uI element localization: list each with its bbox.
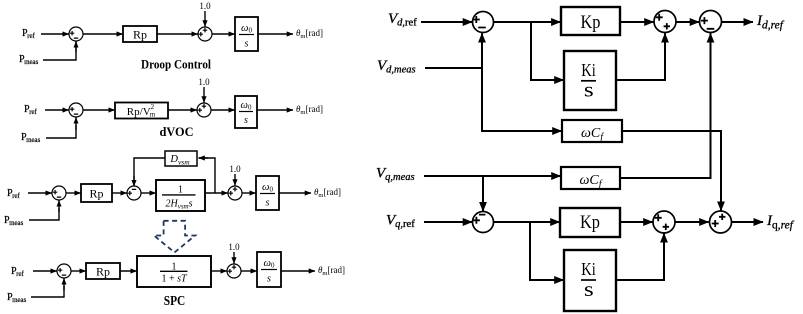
summing junction S1 q-axis xyxy=(473,212,494,233)
block Kp d xyxy=(561,7,620,35)
summing junction S3 d-axis xyxy=(700,11,722,33)
svg-text:Ki: Ki xyxy=(581,60,596,80)
svg-text:SPC: SPC xyxy=(164,294,186,309)
svg-text:1.0: 1.0 xyxy=(229,164,241,174)
svg-text:Pmeas: Pmeas xyxy=(21,132,41,144)
wire w0/s to theta (vsm) xyxy=(279,192,311,194)
block Dvsm (vsm) xyxy=(165,151,197,166)
summing junction S1 d-axis xyxy=(473,12,494,33)
summing junction S1 dvoc xyxy=(69,103,83,117)
svg-text:1 + sT: 1 + sT xyxy=(161,274,188,285)
summing junction S2 d-axis xyxy=(654,11,676,33)
wire V_d,meas trunk xyxy=(425,33,482,68)
svg-text:s: s xyxy=(266,198,270,209)
node 1.0 (vsm) xyxy=(229,164,241,174)
wire V_d,meas down to wCf d xyxy=(482,68,562,131)
summing junction S1 vsm xyxy=(52,186,66,200)
wire Rp to sum2 (droop) xyxy=(157,33,198,35)
node V_d,ref xyxy=(388,11,417,29)
label SPC xyxy=(164,294,186,309)
svg-text:1.0: 1.0 xyxy=(199,1,211,11)
block w0/s (spc) xyxy=(257,252,281,287)
node I_q,ref xyxy=(766,213,795,232)
wire 1.0 to sum3 (vsm) xyxy=(234,174,236,186)
label dVOC xyxy=(160,124,194,139)
wire P_ref to sum (spc) xyxy=(33,270,57,272)
wire P_ref to sum (dvoc) xyxy=(45,109,69,111)
node P_meas (vsm) xyxy=(4,215,24,227)
summing junction S2 droop xyxy=(198,27,212,41)
summing junction S3 q-axis xyxy=(710,211,732,233)
svg-text:Pmeas: Pmeas xyxy=(4,215,24,227)
svg-text:θm[rad]: θm[rad] xyxy=(314,187,341,199)
node P_ref (vsm) xyxy=(7,188,21,200)
svg-text:s: s xyxy=(245,39,249,50)
block 1/2Hvsm s (vsm) xyxy=(156,180,205,211)
wire sum2 to w0/s (droop) xyxy=(212,33,234,35)
wire V_q,ref to q sum1 xyxy=(424,221,472,223)
block Rp (droop) xyxy=(123,26,157,42)
block Rp (spc) xyxy=(86,263,120,279)
wire q sum2 to q sum3 xyxy=(675,221,709,223)
block wCf q xyxy=(561,167,620,190)
wire P_meas to sum (dvoc) xyxy=(46,117,76,138)
svg-text:θm[rad]: θm[rad] xyxy=(296,104,323,116)
wire 1.0 to sum2 (dvoc) xyxy=(203,87,205,103)
svg-text:Vq,ref: Vq,ref xyxy=(386,213,415,231)
block w0/s (vsm) xyxy=(256,176,279,210)
summing junction S3 vsm xyxy=(228,186,242,200)
svg-text:Rp: Rp xyxy=(96,265,110,279)
svg-text:Id,ref: Id,ref xyxy=(756,13,785,32)
node P_ref (dvoc) xyxy=(24,104,38,116)
svg-text:s: s xyxy=(267,274,271,285)
wire sum to Rp (droop) xyxy=(83,33,122,35)
wire w0/s to theta (dvoc) xyxy=(257,109,293,111)
svg-text:Pmeas: Pmeas xyxy=(7,292,27,304)
block w0/s (dvoc) xyxy=(235,96,257,128)
node V_d,meas xyxy=(377,58,416,76)
svg-text:Vq,meas: Vq,meas xyxy=(376,166,415,184)
node theta_m[rad] (vsm) xyxy=(314,187,341,199)
svg-text:Pref: Pref xyxy=(11,266,25,278)
node 1.0 (spc) xyxy=(228,242,240,252)
svg-text:1: 1 xyxy=(178,184,183,195)
summing junction S2 q-axis xyxy=(653,211,675,233)
wire sum to Rp (vsm) xyxy=(66,192,80,194)
wire P_meas to sum (spc) xyxy=(31,278,64,297)
wire 1/(1+sT) to sum2 (spc) xyxy=(211,270,227,272)
summing junction S1 droop xyxy=(69,27,83,41)
block Ki/s q xyxy=(564,250,616,311)
wire branch to Ki/s d xyxy=(531,22,564,80)
svg-text:Vd,ref: Vd,ref xyxy=(388,11,417,29)
wire w0/s to theta (droop) xyxy=(258,33,293,35)
svg-text:Pmeas: Pmeas xyxy=(19,54,39,66)
svg-text:s: s xyxy=(244,115,248,126)
wire sum2d to sum3d xyxy=(676,21,699,23)
svg-text:Pref: Pref xyxy=(7,188,21,200)
summing junction S1 spc xyxy=(57,264,71,278)
wire sum3 to w0/s (vsm) xyxy=(242,192,255,194)
wire Kp d to sum2d xyxy=(620,21,654,23)
wire branch down to q sum1 xyxy=(482,176,484,211)
node P_meas (spc) xyxy=(7,292,27,304)
svg-text:Pref: Pref xyxy=(24,104,38,116)
svg-text:Ki: Ki xyxy=(581,259,596,279)
svg-text:Rp/V2m: Rp/V2m xyxy=(127,103,156,119)
svg-text:s: s xyxy=(584,278,594,302)
wire branch to Ki/s q xyxy=(530,222,564,280)
node P_meas (dvoc) xyxy=(21,132,41,144)
block Rp (vsm) xyxy=(81,184,112,202)
wire Dvsm to sum2 (vsm) xyxy=(134,158,165,186)
wire Rp/Vm2 to sum2 (dvoc) xyxy=(168,109,197,111)
block Rp/Vm2 (dvoc) xyxy=(115,103,168,119)
wire 1.0 to sum2 (spc) xyxy=(233,252,235,264)
node theta_m[rad] (droop) xyxy=(296,28,323,40)
node I_d,ref xyxy=(756,13,785,32)
svg-text:1.0: 1.0 xyxy=(228,242,240,252)
wire Rp to 1/(1+sT) (spc) xyxy=(120,270,137,272)
node V_q,meas xyxy=(376,166,415,184)
block Ki/s d xyxy=(564,51,616,110)
node theta_m[rad] (dvoc) xyxy=(296,104,323,116)
wire V_q,meas to wCf q xyxy=(424,175,561,177)
svg-text:s: s xyxy=(584,78,594,102)
svg-text:Iq,ref: Iq,ref xyxy=(766,213,795,232)
wire P_meas to sum (droop) xyxy=(43,41,76,60)
block wCf d xyxy=(562,120,622,143)
wire wCf d to q sum3 xyxy=(622,131,721,211)
wire wCf q to sum3d xyxy=(620,33,711,178)
node 1.0 (droop) xyxy=(199,1,211,11)
summing junction S2 dvoc xyxy=(197,103,211,117)
wire sum to Rp (spc) xyxy=(71,270,85,272)
svg-text:θm[rad]: θm[rad] xyxy=(296,28,323,40)
svg-text:Kp: Kp xyxy=(580,213,600,233)
wire Rp to sum2 (vsm) xyxy=(112,192,127,194)
svg-text:Rp: Rp xyxy=(133,28,147,42)
wire sum2 to 1/2Hs (vsm) xyxy=(141,192,155,194)
wire Ki/s d to sum2d xyxy=(616,33,665,80)
wire sum3d to I_d,ref xyxy=(722,21,754,23)
label Droop Control xyxy=(141,57,211,72)
wire 1/2Hs to sum3 (vsm) xyxy=(205,192,228,194)
block 1/(1+sT) (spc) xyxy=(137,256,211,287)
wire P_ref to sum (vsm) xyxy=(28,192,52,194)
node V_q,ref xyxy=(386,213,415,231)
wire V_d,ref to sum1d xyxy=(421,21,472,23)
wire sum2 to w0/s (dvoc) xyxy=(211,109,234,111)
svg-text:Kp: Kp xyxy=(581,13,601,33)
wire q sum3 to I_q,ref xyxy=(732,221,764,223)
svg-text:1.0: 1.0 xyxy=(198,77,210,87)
wire q sum1 to Kp q xyxy=(494,221,560,223)
wire sum to Rp/Vm2 (dvoc) xyxy=(83,109,114,111)
wire sum1d to Kp d xyxy=(494,21,561,23)
svg-text:Pref: Pref xyxy=(22,28,36,40)
block Kp q xyxy=(560,208,620,237)
block w0/s (droop) xyxy=(235,17,258,51)
node 1.0 (dvoc) xyxy=(198,77,210,87)
node P_ref (droop) xyxy=(22,28,36,40)
wire 1.0 to sum2 (droop) xyxy=(204,11,206,27)
node theta_m[rad] (spc) xyxy=(318,265,345,277)
svg-text:dVOC: dVOC xyxy=(160,124,194,139)
svg-text:θm[rad]: θm[rad] xyxy=(318,265,345,277)
summing junction S2 vsm xyxy=(127,186,141,200)
wire P_meas to sum (vsm) xyxy=(29,200,59,220)
svg-text:Droop Control: Droop Control xyxy=(141,57,211,72)
wire Ki/s q to q sum2 xyxy=(616,233,664,280)
node P_ref (spc) xyxy=(11,266,25,278)
wire sum2 to w0/s (spc) xyxy=(241,270,256,272)
svg-text:Rp: Rp xyxy=(89,187,103,201)
wire P_ref to sum (droop) xyxy=(41,33,69,35)
svg-text:Vd,meas: Vd,meas xyxy=(377,58,416,76)
wire feedback up to Dvsm (vsm) xyxy=(199,158,216,193)
node P_meas (droop) xyxy=(19,54,39,66)
wire w0/s to theta (spc) xyxy=(281,270,315,272)
blue dashed transform arrow xyxy=(154,221,195,253)
wire Kp q to q sum2 xyxy=(620,221,653,223)
summing junction S2 spc xyxy=(227,264,241,278)
